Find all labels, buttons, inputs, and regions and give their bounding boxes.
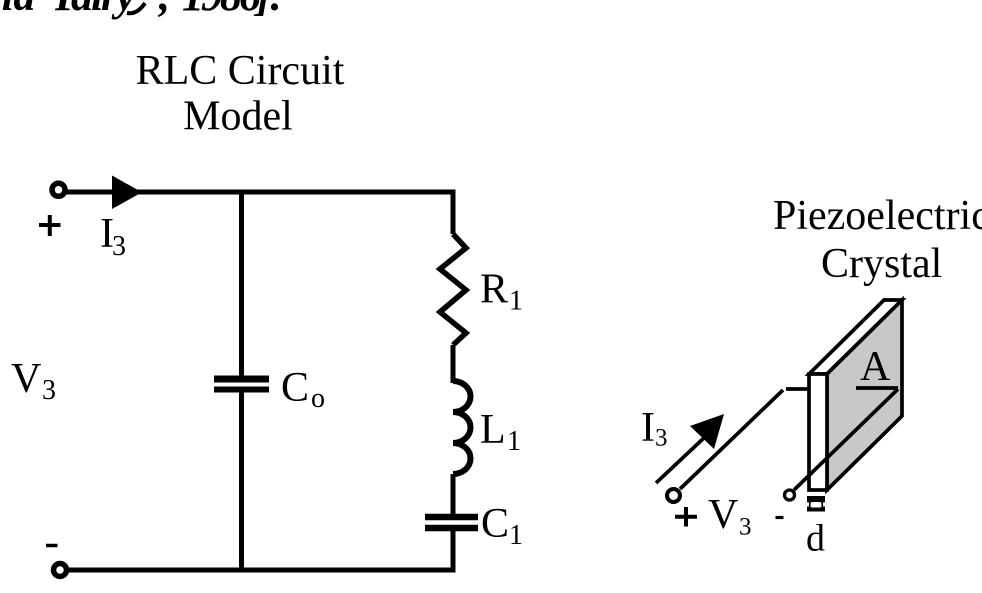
svg-text:3: 3 [112, 231, 126, 262]
svg-text:Crystal: Crystal [821, 241, 942, 287]
svg-text:A: A [860, 344, 891, 390]
svg-text:Model: Model [183, 94, 293, 140]
svg-text:C: C [481, 501, 509, 547]
svg-text:,: , [158, 0, 170, 20]
svg-text:I: I [641, 405, 655, 451]
svg-text:1986: 1986 [182, 0, 261, 20]
svg-text:a: a [71, 0, 93, 20]
svg-text:1: 1 [509, 286, 523, 317]
svg-text:1: 1 [509, 520, 523, 551]
svg-text:V: V [11, 356, 41, 402]
svg-text:3: 3 [739, 514, 752, 541]
svg-text:RLC Circuit: RLC Circuit [136, 48, 345, 94]
svg-text:o: o [311, 383, 325, 414]
svg-text:3: 3 [655, 425, 668, 452]
svg-text:Piezoelectric: Piezoelectric [773, 193, 982, 239]
svg-text:C: C [281, 365, 309, 411]
svg-text:3: 3 [42, 375, 56, 406]
svg-text:].: ]. [253, 0, 282, 20]
svg-text:L: L [480, 407, 506, 453]
svg-text:d: d [806, 518, 825, 560]
svg-text:1: 1 [507, 426, 521, 457]
svg-text:V: V [708, 492, 738, 538]
svg-text:R: R [480, 267, 508, 313]
svg-text:and: and [0, 0, 36, 20]
